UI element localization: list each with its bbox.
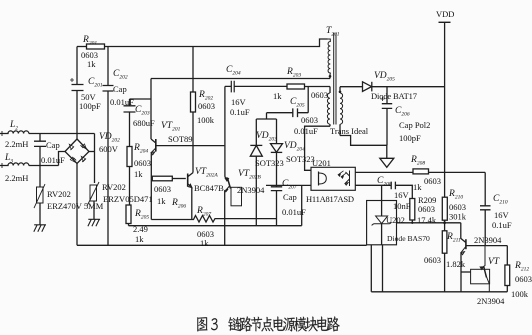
svg-text:R206: R206 (171, 198, 186, 210)
capacitor C206 Cap Pol2 (381, 87, 393, 146)
resistor R206 (152, 176, 186, 181)
wire diode clamp top (256, 118, 276, 120)
resistor R209 (410, 199, 415, 225)
wire bridge left vertex step (59, 152, 66, 166)
svg-text:R205: R205 (134, 209, 149, 221)
capacitor C210 (480, 206, 491, 246)
capacitor C202 (103, 47, 114, 246)
svg-text:VT: VT (488, 257, 500, 267)
svg-text:16V: 16V (494, 210, 510, 220)
svg-text:2N3904: 2N3904 (477, 296, 505, 306)
SEC-LEFT (0, 44, 367, 245)
wire feedback node y222.8 (397, 222, 461, 224)
svg-text:0.01uF: 0.01uF (41, 155, 65, 165)
ground for RV202 #2 (88, 219, 100, 226)
inductor L2 (0, 131, 95, 136)
svg-text:Cap: Cap (46, 140, 60, 150)
resistor R207 zigzag (151, 216, 276, 223)
svg-text:600V: 600V (99, 144, 119, 154)
svg-text:VD203: VD203 (256, 131, 277, 143)
svg-text:2N3904: 2N3904 (474, 235, 502, 245)
svg-text:C201: C201 (88, 77, 103, 89)
diode VD203 (250, 119, 262, 226)
svg-text:100pF: 100pF (79, 101, 101, 111)
svg-text:U201: U201 (312, 158, 331, 168)
wire bridge bottom to bus (76, 164, 78, 246)
resistor R202 (191, 47, 196, 173)
svg-text:Cap: Cap (113, 84, 127, 94)
wire U201 emitter y185.3 (355, 184, 391, 186)
svg-text:17.4k: 17.4k (417, 215, 437, 225)
svg-text:R203: R203 (286, 67, 301, 79)
capacitor line-filter Cap 0.01uF (34, 134, 46, 166)
svg-text:1k: 1k (134, 169, 143, 179)
svg-text:VDD: VDD (436, 9, 454, 19)
transistor VT202B 2N3904 (224, 176, 241, 245)
svg-text:C205: C205 (290, 97, 305, 109)
svg-text:C206: C206 (395, 106, 410, 118)
svg-text:100pF: 100pF (399, 133, 421, 143)
resistor R210 (442, 197, 447, 223)
capacitor C201 (70, 47, 84, 91)
U202 pins to low rail (371, 245, 382, 292)
wire U201 collector y172.4 (355, 171, 413, 173)
wire aux bottom to U201 anode (305, 126, 330, 170)
svg-text:0603: 0603 (449, 202, 466, 212)
transformer T201 primary winding (328, 39, 332, 79)
svg-text:16V: 16V (231, 97, 247, 107)
svg-text:U202: U202 (386, 215, 405, 225)
svg-text:VD205: VD205 (374, 71, 395, 83)
transistor VT203a 2N3904 (461, 223, 508, 292)
svg-text:0603: 0603 (424, 176, 441, 186)
svg-text:10nF: 10nF (393, 201, 411, 211)
svg-text:Diode BAT17: Diode BAT17 (371, 91, 417, 101)
svg-text:100k: 100k (197, 115, 215, 125)
diode VD204 (271, 119, 283, 187)
svg-text:C202: C202 (113, 69, 128, 81)
wire drop to C210 (484, 172, 486, 205)
svg-text:C204: C204 (226, 65, 241, 77)
U201 LED symbol (319, 172, 327, 186)
svg-text:SOT89: SOT89 (168, 134, 193, 144)
svg-text:VD204: VD204 (284, 141, 305, 153)
svg-text:Cap: Cap (283, 192, 297, 202)
svg-text:ERZ470V 5MM: ERZ470V 5MM (47, 201, 104, 211)
wire U201 LED cathode y185.4 (266, 184, 311, 186)
svg-text:L3: L3 (4, 153, 13, 165)
wire AC right leg (94, 134, 96, 184)
caption 图3 链路节点电源模块电路 (197, 316, 339, 331)
svg-text:VT202A: VT202A (195, 167, 218, 179)
svg-text:2N3904: 2N3904 (237, 185, 265, 195)
wire top rail step to transformer (193, 39, 328, 47)
svg-text:2.2mH: 2.2mH (5, 173, 28, 183)
diode VD205 BAT17 (363, 82, 445, 92)
svg-text:0603: 0603 (424, 255, 441, 265)
ground triangle (380, 158, 394, 167)
svg-text:R212: R212 (514, 261, 529, 273)
svg-text:2.2mH: 2.2mH (5, 139, 28, 149)
zener diode U202 (372, 216, 392, 245)
transformer aux winding (327, 87, 330, 127)
svg-text:C207: C207 (282, 179, 297, 191)
wire VT201 collector (150, 79, 152, 140)
svg-text:R202: R202 (198, 90, 213, 102)
svg-text:C203: C203 (135, 105, 150, 117)
svg-text:C208: C208 (377, 176, 392, 188)
svg-text:R211: R211 (446, 232, 461, 244)
svg-text:680uF: 680uF (133, 118, 155, 128)
svg-text:R208: R208 (410, 155, 425, 167)
svg-text:C210: C210 (493, 194, 508, 206)
resistor R201 (77, 44, 193, 49)
svg-text:L2: L2 (9, 120, 18, 132)
svg-text:0603: 0603 (418, 204, 435, 214)
svg-text:VT202B: VT202B (238, 169, 261, 181)
optocoupler U201 box (311, 167, 355, 190)
svg-text:1.82k: 1.82k (446, 259, 466, 269)
svg-text:0603: 0603 (515, 274, 532, 284)
bridge rectifier VD202 (65, 139, 89, 164)
SEC-RIGHT (340, 22, 510, 292)
svg-text:0603: 0603 (311, 90, 328, 100)
capacitor C207 (271, 187, 282, 226)
shunt regulator U202 box (367, 201, 397, 245)
wire primary bottom rail y78.5 (151, 78, 330, 80)
resistor R205 (126, 205, 131, 226)
resistor R211 (442, 221, 447, 291)
wire mid horizontal y225.7 (129, 225, 302, 227)
svg-text:VD202: VD202 (99, 132, 120, 144)
wire bridge top to C201 (76, 91, 78, 140)
wire aux rail y86.4 with capacitor C204 in series (225, 85, 287, 87)
svg-text:R207: R207 (196, 206, 211, 218)
svg-text:RV202: RV202 (47, 189, 71, 199)
svg-text:0.01uF: 0.01uF (294, 126, 318, 136)
svg-text:SOT323: SOT323 (255, 158, 284, 168)
svg-text:Trans Ideal: Trans Ideal (330, 126, 369, 136)
svg-text:1k: 1k (87, 59, 96, 69)
svg-text:301k: 301k (449, 212, 467, 222)
wire U201 pin drop to mid bus (301, 185, 303, 225)
transformer secondary winding (339, 87, 343, 136)
wire zener branch from U201 emitter (381, 185, 383, 216)
power rail VDD (439, 22, 451, 197)
svg-text:R201: R201 (82, 35, 97, 47)
svg-text:1k: 1k (135, 234, 144, 244)
low rail (371, 291, 507, 293)
svg-text:0.01uF: 0.01uF (110, 97, 134, 107)
svg-text:0.1uF: 0.1uF (492, 220, 512, 230)
varistor RV202 #2 (87, 182, 99, 219)
svg-text:1k: 1k (273, 91, 282, 101)
svg-text:0603: 0603 (198, 101, 215, 111)
resistor R203 (287, 84, 330, 89)
wire VT203a emitter to VT203 box (461, 271, 471, 273)
ground for RV202 #1 (34, 225, 46, 232)
transformer core (334, 33, 336, 125)
svg-text:1k: 1k (200, 238, 209, 248)
transistor VT202A BC847B (188, 173, 193, 220)
U201 phototransistor symbol (338, 171, 350, 187)
svg-text:0603: 0603 (301, 115, 318, 125)
svg-text:0.01uF: 0.01uF (282, 207, 306, 217)
wire secondary bottom to ground (340, 136, 387, 159)
resistor R204 (127, 147, 132, 206)
capacitor C203 680uF (124, 99, 152, 147)
svg-text:16V: 16V (394, 190, 410, 200)
svg-text:T201: T201 (326, 26, 340, 38)
svg-text:Cap Pol2: Cap Pol2 (399, 120, 430, 130)
bottom bus (77, 244, 367, 246)
svg-text:R210: R210 (448, 189, 463, 201)
svg-text:Diode BAS70: Diode BAS70 (387, 234, 430, 243)
svg-text:VT201: VT201 (161, 121, 181, 133)
svg-text:BC847B: BC847B (194, 183, 224, 193)
svg-text:0603: 0603 (134, 158, 151, 168)
svg-text:H11A817ASD: H11A817ASD (306, 194, 354, 204)
transistor VT203 2N3904 output (471, 246, 490, 292)
svg-text:ERZV05D471: ERZV05D471 (103, 194, 153, 204)
svg-text:2.49: 2.49 (133, 224, 148, 234)
svg-text:1k: 1k (157, 196, 166, 206)
svg-text:0.1uF: 0.1uF (230, 107, 250, 117)
wire secondary top to VDD y86.7 (340, 86, 363, 88)
svg-text:1k: 1k (413, 182, 422, 192)
resistor R212 (505, 246, 510, 292)
resistor R208 (413, 169, 485, 174)
svg-text:RV202: RV202 (102, 182, 126, 192)
wire bridge right vertex stub (89, 151, 95, 153)
svg-text:SOT323: SOT323 (286, 154, 315, 164)
transistor VT201 SOT89 (151, 139, 224, 220)
inductor L3 (0, 163, 59, 168)
capacitor C208 (391, 182, 412, 199)
varistor RV202 #1 (34, 166, 45, 225)
svg-text:R204: R204 (133, 143, 148, 155)
svg-text:0603: 0603 (154, 184, 171, 194)
svg-text:100k: 100k (511, 289, 529, 299)
wire VT202B collector drop (224, 86, 226, 176)
SEC-MID (151, 33, 394, 226)
capacitor C205 snubber branch (267, 87, 309, 120)
